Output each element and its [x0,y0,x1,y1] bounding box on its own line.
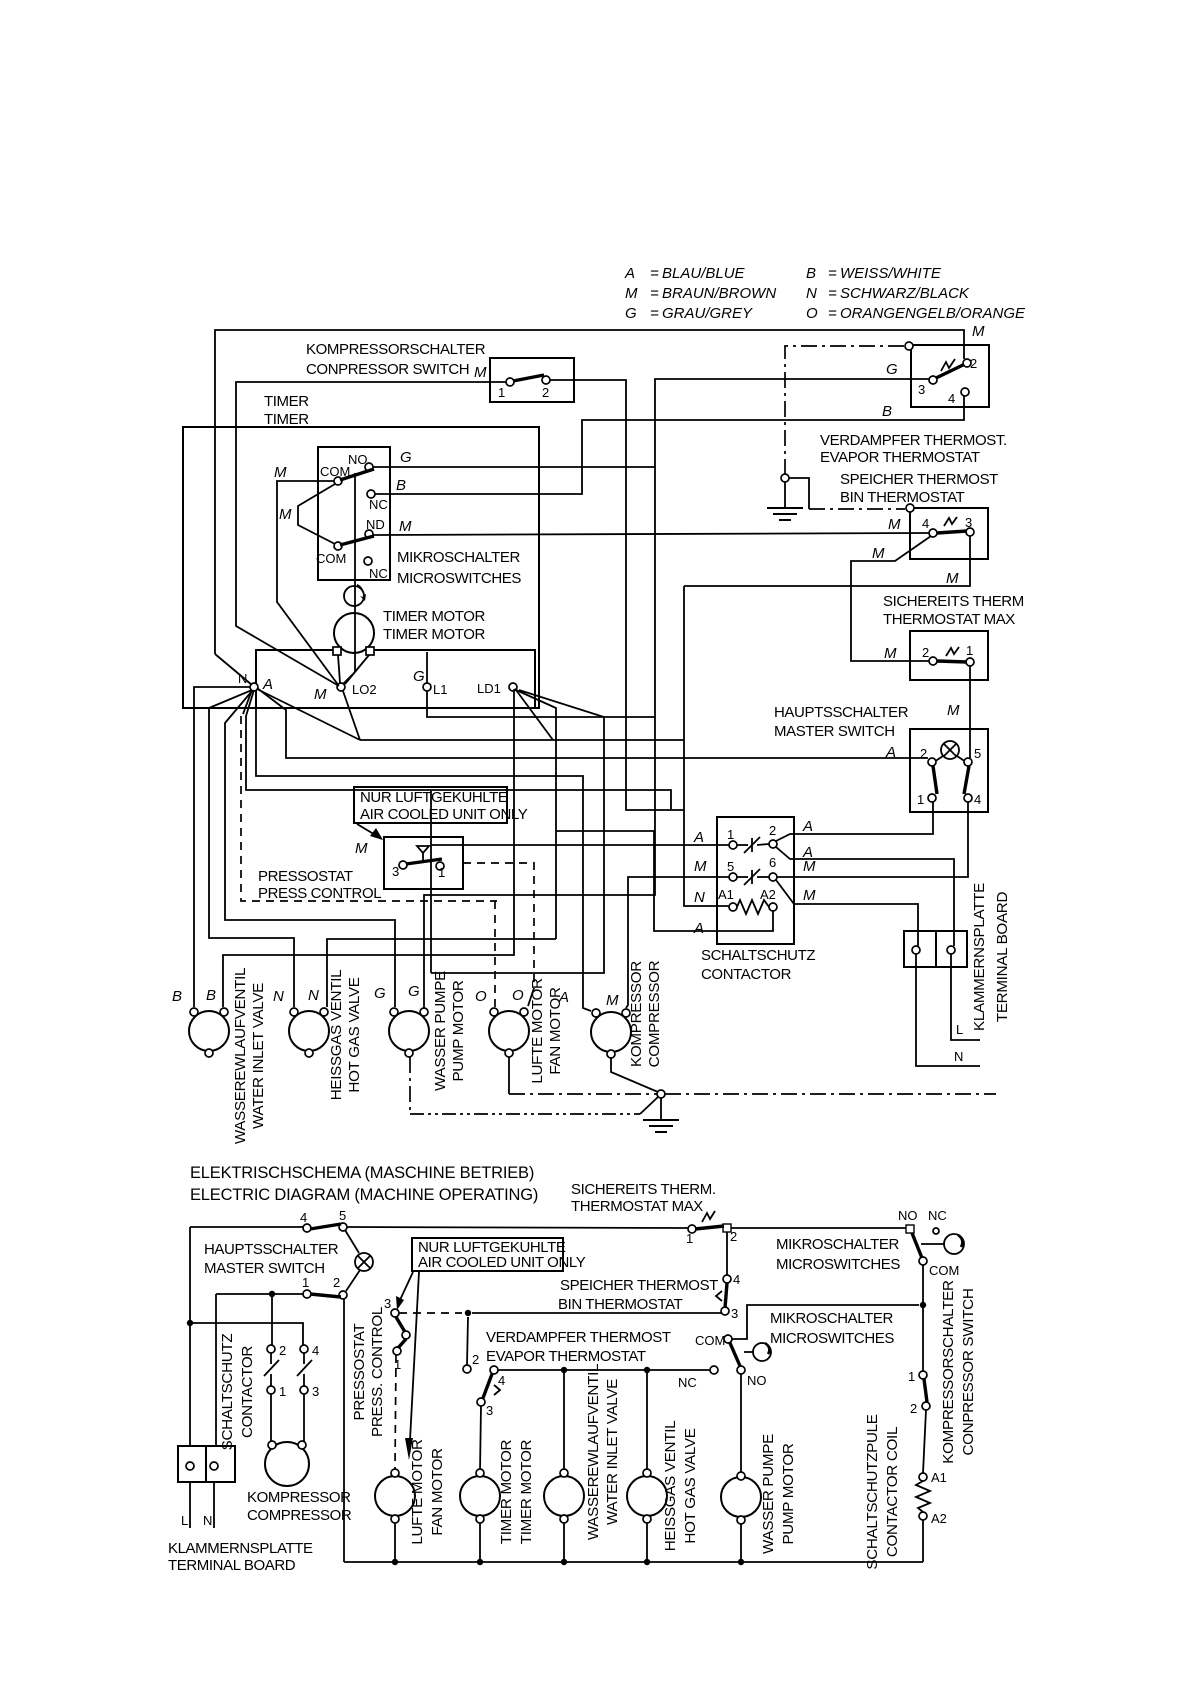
svg-text:G: G [413,668,425,685]
svg-text:MIKROSCHALTER: MIKROSCHALTER [397,549,520,566]
evaporator thermostat box B1 [911,345,989,407]
coil A2 terminal [919,1512,927,1520]
microswitch SW1 COM terminal [334,477,342,485]
svg-text:1: 1 [908,1369,915,1384]
wire max1 to master5 [969,666,971,758]
svg-text:PRESSOSTAT: PRESSOSTAT [258,868,353,885]
wire max2 to msw1 NO [731,1227,906,1229]
max b lever [695,1226,724,1229]
timer motor terminal b [366,647,374,655]
contactor b contact symbols [270,1353,272,1364]
svg-text:WASSEREWLAUFVENTIL: WASSEREWLAUFVENTIL [232,968,249,1144]
master lever 2-1 [933,766,937,794]
timer outer box [183,427,539,708]
wire A1 column [684,586,729,906]
thermostat max b terminal 1 [688,1225,696,1233]
svg-text:PRESSOSTAT: PRESSOSTAT [351,1324,368,1421]
node A [250,683,258,691]
master switch b terminal 1 [303,1290,311,1298]
evap terminal 3 [929,376,937,384]
master switch b terminal 2 [339,1291,347,1299]
wire compressor left feed [256,707,591,1011]
msw2 NC terminal [710,1366,718,1374]
pressostat b lever [396,1317,405,1332]
svg-text:N: N [694,889,705,906]
compressor switch K1 terminal 1 [506,378,514,386]
svg-text:TIMER: TIMER [264,393,309,410]
svg-text:N: N [308,987,319,1004]
bin terminal 3 [966,528,974,536]
wire node A to dashed start [243,690,252,714]
master terminal 5 [964,758,972,766]
dashed to fan motor b [395,1355,396,1469]
wire bin3 down left [684,536,970,586]
wire A2 to bus [922,1520,924,1562]
wire y740 run [360,739,684,741]
svg-text:MIKROSCHALTER: MIKROSCHALTER [776,1236,899,1253]
microswitch link rod [354,473,356,672]
compressor switch K1 terminal 2 [542,376,550,384]
svg-text:M: M [474,364,487,381]
svg-text:A: A [693,920,704,937]
svg-text:M: M [884,645,897,662]
svg-text:G: G [408,983,420,1000]
pressostat b mid terminal [402,1331,410,1339]
svg-text:3: 3 [918,382,925,397]
wire fan bottom dashdot [508,1057,510,1094]
wire COM chain [298,484,335,544]
contactor terminal 1 [729,841,737,849]
svg-text:3: 3 [486,1403,493,1418]
svg-text:M: M [399,518,412,535]
max terminal 1 [966,658,974,666]
svg-text:TIMER MOTOR: TIMER MOTOR [383,608,486,625]
terminal board terminal L [947,946,955,954]
svg-text:1: 1 [686,1231,693,1246]
terminal board terminal N [912,946,920,954]
svg-text:M: M [694,858,707,875]
svg-text:CONTACTOR: CONTACTOR [239,1346,256,1438]
bin b terminal 4 [723,1275,731,1283]
svg-text:M: M [947,702,960,719]
node L1 [423,683,431,691]
svg-text:HOT GAS VALVE: HOT GAS VALVE [346,977,363,1092]
NUR LUFTGEKUHLTE box [354,787,507,823]
wire A2 chain [556,831,773,931]
dashed pressostat to fan left [494,901,496,1007]
msw2 COM terminal [724,1335,732,1343]
svg-text:A: A [693,829,704,846]
wire compressor-switch 1 left [236,382,506,686]
svg-text:B: B [172,988,182,1005]
wire L1 to G column [427,691,655,717]
lamp b [345,1230,359,1253]
svg-text:2: 2 [730,1229,737,1244]
svg-text:M: M [355,840,368,857]
svg-text:PRESS CONTROL: PRESS CONTROL [258,885,381,902]
msw1 NO terminal [906,1225,914,1233]
microswitch SW2 lever [340,536,374,545]
compressor switch b lever [924,1379,927,1402]
svg-text:SCHALTSCHUTZPULE: SCHALTSCHUTZPULE [864,1414,881,1569]
LEGEND [624,265,1026,322]
svg-text:4: 4 [312,1343,319,1358]
svg-text:TIMER: TIMER [264,411,309,428]
svg-text:HOT GAS VALVE: HOT GAS VALVE [682,1428,699,1543]
svg-text:3: 3 [312,1384,319,1399]
svg-text:A1: A1 [718,887,734,902]
svg-text:N: N [273,988,284,1005]
svg-text:WATER INLET VALVE: WATER INLET VALVE [604,1379,621,1525]
svg-text:N: N [238,671,247,686]
svg-text:G: G [400,449,412,466]
ground symbol main [660,1098,662,1120]
svg-text:NUR LUFTGEKUHLTE: NUR LUFTGEKUHLTE [360,789,508,806]
coil zigzag [916,1481,930,1512]
svg-text:CONPRESSOR SWITCH: CONPRESSOR SWITCH [306,361,469,378]
wire LO2 diag to y740 [343,691,360,740]
svg-text:ELECTRIC DIAGRAM (MACHINE OPER: ELECTRIC DIAGRAM (MACHINE OPERATING) [190,1186,538,1204]
svg-text:NC: NC [678,1375,697,1390]
wire node A to pump left [225,691,395,1007]
svg-text:NO: NO [747,1373,767,1388]
microswitch SW2 ND terminal [365,530,373,538]
pressostat lever [406,859,442,864]
svg-text:MICROSWITCHES: MICROSWITCHES [770,1330,894,1347]
wire M ND2 to bin4 [373,533,929,535]
microswitch SW2 COM terminal [334,542,342,550]
wire junction left to COM2 [732,1305,919,1339]
thermostat max box B3 [910,631,988,680]
evap terminal 4 [961,388,969,396]
svg-text:TERMINAL BOARD: TERMINAL BOARD [994,892,1011,1023]
dashed pressostat row [399,1312,462,1314]
pressostat terminal 3 [399,861,407,869]
motor pump [389,1011,429,1051]
junction dot bin3 row [465,1310,471,1316]
wire contactor 6 to N terminal [776,880,918,946]
pressostat b terminal 1 [393,1347,401,1355]
svg-text:CONTACTOR: CONTACTOR [701,966,792,983]
svg-text:5: 5 [339,1208,346,1223]
msw1 NC stub [933,1228,939,1234]
wire LD1 diag to y740 [516,690,553,740]
ground symbol evap [784,482,786,508]
wire contactor 1 feed [431,844,729,846]
motor water inlet valve [189,1011,229,1051]
wire contactor 2 to master 1 [776,802,933,841]
svg-text:LO2: LO2 [352,682,377,697]
svg-text:TIMER MOTOR: TIMER MOTOR [383,626,486,643]
svg-text:BIN THERMOSTAT: BIN THERMOSTAT [558,1296,683,1313]
master lever 5-4 [964,766,969,794]
motor timer b [460,1476,500,1516]
motor pump b [721,1477,761,1517]
svg-text:1: 1 [727,827,734,842]
svg-text:3: 3 [965,515,972,530]
wire L1 up stub [426,652,428,683]
svg-text:COMPRESSOR: COMPRESSOR [247,1507,352,1524]
svg-text:FAN MOTOR: FAN MOTOR [429,1448,446,1536]
svg-text:WASSEREWLAUFVENTIL: WASSEREWLAUFVENTIL [585,1364,602,1540]
svg-text:TIMER MOTOR: TIMER MOTOR [498,1439,515,1544]
wires L N below board [189,1482,191,1528]
svg-text:FAN MOTOR: FAN MOTOR [547,987,564,1075]
wire master1 left [216,1293,303,1295]
wire contactor to compressor b [270,1394,272,1442]
wire y1323 to contactor4 [190,1323,303,1345]
svg-text:COM: COM [929,1263,959,1278]
thermostat max b terminal 2 [723,1224,731,1232]
wire COM1 down [922,1265,924,1371]
wire B evap4 [375,396,964,494]
svg-text:O: O [475,988,487,1005]
wire bin4 to max2 [851,536,931,661]
pressostat actuator [417,846,429,853]
svg-text:A: A [262,676,273,693]
svg-text:MIKROSCHALTER: MIKROSCHALTER [770,1310,893,1327]
evap node [905,342,913,350]
ground node [781,474,789,482]
svg-text:N=SCHWARZ/BLACK: N=SCHWARZ/BLACK [806,285,970,302]
svg-text:NC: NC [369,566,388,581]
wire msw2 NO to pump motor [740,1374,742,1472]
wire contactor 5 to compressor [626,877,729,1008]
wire COM1 left stub [277,481,339,686]
svg-text:HAUPTSSCHALTER: HAUPTSSCHALTER [204,1241,339,1258]
wire pump bottom dashdotdot [409,1057,411,1114]
microswitch box U2 [318,447,390,580]
svg-text:2: 2 [970,356,977,371]
evap b squiggle [494,1385,500,1395]
svg-text:2: 2 [910,1401,917,1416]
wire G evap3 [424,379,929,1008]
arrow NUR to pressostat [357,824,377,836]
pressostat terminal 1 [436,862,444,870]
svg-text:M: M [972,323,985,340]
wire left column x190 [189,1227,191,1446]
bin lever [937,531,967,533]
svg-text:LUFTE MOTOR: LUFTE MOTOR [409,1439,426,1545]
svg-text:CONTACTOR COIL: CONTACTOR COIL [884,1427,901,1557]
evap b lever [483,1374,492,1398]
wire A master row [257,688,928,758]
bin b terminal 3 [721,1307,729,1315]
svg-text:A1: A1 [931,1470,947,1485]
junction dot x190 [187,1320,193,1326]
svg-text:M: M [606,992,619,1009]
motor compressor [591,1012,631,1052]
microswitch SW2 NC terminal [364,557,372,565]
wire node A to valve2 left [209,690,294,1007]
master switch b lever [310,1224,341,1229]
svg-text:L: L [181,1513,188,1528]
svg-text:COM: COM [316,551,346,566]
svg-text:1: 1 [279,1384,286,1399]
dash-dot to bin node [809,508,905,510]
svg-text:WASSER PUMPE: WASSER PUMPE [432,971,449,1091]
wire junction down to evap2 [467,1317,468,1365]
svg-text:M: M [872,545,885,562]
wire evap3 to timer motor [480,1406,481,1471]
svg-text:N: N [203,1513,212,1528]
pressostat b terminal 3 [391,1309,399,1317]
wire contactor 2 to L terminal [776,847,954,946]
svg-text:KOMPRESSORSCHALTER: KOMPRESSORSCHALTER [306,341,486,358]
wire max2 down to bin4 [726,1232,728,1275]
wire node N to valve1 [194,687,250,1007]
terminal board box [904,931,967,967]
svg-text:1: 1 [966,643,973,658]
master switch box B4 [910,729,988,812]
arrow NUR long to fan dashed [410,1272,419,1440]
svg-text:A2: A2 [931,1511,947,1526]
svg-text:KOMPRESSOR: KOMPRESSOR [247,1489,351,1506]
svg-text:1: 1 [498,385,505,400]
contactor terminal 2 [769,840,777,848]
wire compressor-switch 2 right down [550,380,684,810]
msw2 lever [730,1343,740,1366]
svg-text:MICROSWITCHES: MICROSWITCHES [776,1256,900,1273]
svg-text:SICHEREITS THERM: SICHEREITS THERM [883,593,1024,610]
svg-text:L1: L1 [433,682,447,697]
evap lever [936,365,963,378]
svg-text:1: 1 [438,865,445,880]
contactor contact 1-2 [751,838,753,852]
svg-text:M: M [279,506,292,523]
master switch b lever 1-2 [310,1294,341,1297]
wire y973 run [431,690,604,973]
compressor switch K1 lever [513,375,544,381]
wire G NO1 [373,466,655,468]
svg-text:M: M [946,570,959,587]
svg-text:B: B [882,403,892,420]
wire master2 to bus [343,1299,345,1562]
max b squiggle [702,1211,715,1222]
svg-text:M: M [803,887,816,904]
svg-text:4: 4 [300,1210,307,1225]
svg-text:4: 4 [974,792,981,807]
svg-text:5: 5 [974,746,981,761]
svg-text:2: 2 [279,1343,286,1358]
msw1 motor [944,1234,964,1254]
bin squiggle [944,517,957,526]
svg-text:HEISSGAS VENTIL: HEISSGAS VENTIL [328,970,345,1101]
node LO2 [337,683,345,691]
msw2 motor [753,1343,771,1361]
svg-text:ND: ND [366,517,385,532]
svg-text:A: A [885,744,896,761]
wire y790 run [246,690,671,810]
msw1 lever [912,1233,922,1258]
timer motor terminal a [333,647,341,655]
wire valve2 right B column [327,939,556,1007]
svg-text:EVAPOR THERMOSTAT: EVAPOR THERMOSTAT [820,449,980,466]
svg-text:A2: A2 [760,887,776,902]
svg-text:2: 2 [922,645,929,660]
dash-dot evap node run [785,346,904,474]
wire LD1 to B valve1 [223,689,516,1007]
microswitch SW1 NC terminal [367,490,375,498]
svg-text:VERDAMPFER THERMOST.: VERDAMPFER THERMOST. [820,432,1007,449]
wire x216 down [215,1294,217,1446]
compressor-switch box [490,358,574,402]
TOP DIAGRAM [172,323,1024,1144]
svg-text:SPEICHER THERMOST: SPEICHER THERMOST [840,471,998,488]
svg-text:5: 5 [727,859,734,874]
evap b terminal 2 [463,1365,471,1373]
svg-text:2: 2 [333,1275,340,1290]
svg-text:COMPRESSOR: COMPRESSOR [646,960,663,1067]
svg-text:AIR COOLED UNIT ONLY: AIR COOLED UNIT ONLY [418,1254,586,1271]
svg-text:KLAMMERNSPLATTE: KLAMMERNSPLATTE [971,883,988,1031]
svg-text:SCHALTSCHUTZ: SCHALTSCHUTZ [219,1334,236,1451]
junction dots evap row [561,1367,567,1373]
svg-text:NO: NO [898,1208,918,1223]
svg-text:L: L [956,1022,963,1037]
svg-text:4: 4 [733,1272,740,1287]
node LD1 [509,683,517,691]
svg-text:4: 4 [922,516,929,531]
microswitch SW1 NO terminal [365,463,373,471]
svg-text:HAUPTSSCHALTER: HAUPTSSCHALTER [774,704,909,721]
wire x431 column [430,790,432,973]
compressor b motor [265,1442,309,1486]
master terminal 1 [928,794,936,802]
ground node main [657,1090,665,1098]
arrow NUR to pressostat b [400,1272,413,1300]
wire bin3 row [472,1312,721,1314]
svg-text:PUMP MOTOR: PUMP MOTOR [450,980,467,1081]
wire M diag to node A [215,654,252,685]
motor fan b [375,1476,415,1516]
svg-text:KOMPRESSORSCHALTER: KOMPRESSORSCHALTER [940,1280,957,1464]
svg-text:EVAPOR THERMOSTAT: EVAPOR THERMOSTAT [486,1348,646,1365]
svg-text:B: B [396,477,406,494]
master switch b terminal 4 [303,1224,311,1232]
terminal board b [178,1446,235,1482]
bus bottom [344,1561,923,1563]
motor hot gas valve [289,1011,329,1051]
svg-text:3: 3 [392,864,399,879]
contactor contact 5-6 [751,870,753,884]
master lamp leads [934,756,943,762]
svg-text:WATER INLET VALVE: WATER INLET VALVE [250,983,267,1129]
bin b lever [725,1283,727,1308]
master terminal 2 [928,758,936,766]
timer motor small dial [344,586,364,606]
wire evap4 row [498,1369,710,1371]
svg-text:6: 6 [769,855,776,870]
svg-text:TIMER MOTOR: TIMER MOTOR [518,1439,535,1544]
svg-text:4: 4 [948,391,955,406]
contactor terminal A1 [729,903,737,911]
svg-text:SCHALTSCHUTZ: SCHALTSCHUTZ [701,947,815,964]
svg-text:COM: COM [695,1333,725,1348]
svg-text:1: 1 [302,1275,309,1290]
svg-text:COM: COM [320,464,350,479]
compressor switch b terminal 2 [922,1402,930,1410]
max lever [937,661,967,662]
contactor terminal 6 [769,873,777,881]
svg-text:TERMINAL BOARD: TERMINAL BOARD [168,1557,296,1574]
wire master4 left [190,1226,303,1228]
svg-text:G: G [886,361,898,378]
dashed air-cooled left [241,716,497,901]
svg-text:MASTER SWITCH: MASTER SWITCH [774,723,895,740]
wire M top run [215,330,964,654]
svg-text:THERMOSTAT MAX: THERMOSTAT MAX [571,1198,703,1215]
